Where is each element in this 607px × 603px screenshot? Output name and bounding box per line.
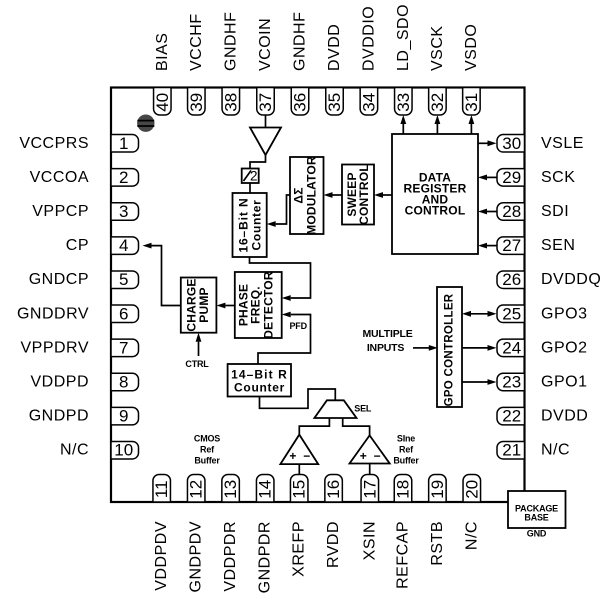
svg-text:Counter: Counter (250, 200, 264, 251)
svg-text:22: 22 (502, 407, 521, 426)
svg-text:26: 26 (502, 270, 521, 289)
svg-text:3: 3 (119, 202, 128, 221)
svg-text:VSLE: VSLE (541, 135, 584, 152)
svg-text:5: 5 (119, 270, 128, 289)
svg-text:DETECTOR: DETECTOR (262, 271, 276, 339)
svg-text:14–Bit R: 14–Bit R (231, 368, 288, 382)
svg-text:GNDCP: GNDCP (29, 271, 89, 288)
svg-text:17: 17 (360, 480, 379, 499)
svg-text:INPUTS: INPUTS (367, 342, 405, 354)
svg-text:23: 23 (502, 373, 521, 392)
svg-text:GPO3: GPO3 (541, 305, 587, 322)
svg-text:6: 6 (119, 304, 128, 323)
svg-text:VCCHF: VCCHF (188, 13, 205, 71)
svg-text:24: 24 (502, 338, 521, 357)
svg-text:BASE: BASE (524, 512, 548, 522)
svg-text:GNDHF: GNDHF (222, 12, 239, 71)
svg-text:CONTROL: CONTROL (357, 164, 371, 225)
svg-text:35: 35 (325, 93, 344, 112)
svg-text:16: 16 (324, 480, 343, 499)
svg-text:SEN: SEN (541, 237, 575, 254)
svg-text:CTRL: CTRL (185, 359, 209, 369)
svg-text:REFCAP: REFCAP (395, 521, 412, 589)
svg-text:34: 34 (359, 93, 378, 112)
svg-text:VCCPRS: VCCPRS (19, 135, 89, 152)
svg-text:4: 4 (119, 236, 128, 255)
svg-text:18: 18 (394, 480, 413, 499)
svg-text:VDDPD: VDDPD (30, 374, 89, 391)
svg-text:VPPDRV: VPPDRV (20, 339, 89, 356)
svg-text:RSTB: RSTB (429, 521, 446, 566)
svg-text:Buffer: Buffer (393, 455, 419, 465)
svg-text:27: 27 (502, 236, 521, 255)
svg-text:PFD: PFD (290, 321, 308, 331)
svg-text:BIAS: BIAS (154, 33, 171, 71)
svg-text:32: 32 (428, 93, 447, 112)
svg-text:−: − (374, 449, 381, 463)
svg-text:20: 20 (462, 480, 481, 499)
svg-text:9: 9 (119, 407, 128, 426)
svg-text:GPO1: GPO1 (541, 374, 587, 391)
svg-text:SEL: SEL (354, 404, 372, 414)
svg-text:CP: CP (66, 237, 89, 254)
svg-text:VPPCP: VPPCP (32, 203, 89, 220)
svg-text:VCCOA: VCCOA (30, 169, 89, 186)
svg-text:ΔΣ: ΔΣ (292, 187, 306, 203)
svg-text:10: 10 (114, 441, 133, 460)
svg-text:39: 39 (187, 93, 206, 112)
svg-text:SCK: SCK (541, 169, 575, 186)
svg-text:VDDPDR: VDDPDR (222, 521, 239, 592)
svg-text:Buffer: Buffer (194, 455, 220, 465)
svg-text:XSIN: XSIN (361, 521, 378, 560)
svg-text:7: 7 (119, 338, 128, 357)
svg-text:36: 36 (291, 93, 310, 112)
svg-text:40: 40 (153, 93, 172, 112)
svg-text:19: 19 (428, 480, 447, 499)
svg-text:1: 1 (119, 134, 128, 153)
svg-text:VCOIN: VCOIN (257, 18, 274, 71)
svg-text:DVDDQ: DVDDQ (541, 271, 601, 288)
svg-text:GPO CONTROLLER: GPO CONTROLLER (444, 293, 456, 406)
svg-text:XREFP: XREFP (291, 521, 308, 577)
svg-text:N/C: N/C (60, 442, 89, 459)
svg-text:FREQ.: FREQ. (249, 286, 263, 324)
svg-text:N/C: N/C (541, 442, 570, 459)
svg-text:Ref: Ref (399, 444, 414, 454)
svg-text:RVDD: RVDD (325, 521, 342, 568)
svg-text:25: 25 (502, 304, 521, 323)
svg-text:N/C: N/C (463, 521, 480, 550)
svg-text:GND: GND (527, 528, 547, 538)
svg-text:28: 28 (502, 202, 521, 221)
svg-text:16–Bit N: 16–Bit N (237, 197, 251, 252)
svg-text:33: 33 (394, 93, 413, 112)
svg-text:DVDD: DVDD (326, 24, 343, 71)
svg-text:LD_SDO: LD_SDO (395, 4, 412, 71)
svg-text:GNDPDV: GNDPDV (188, 521, 205, 592)
svg-text:MULTIPLE: MULTIPLE (362, 328, 412, 340)
svg-text:MODULATOR: MODULATOR (305, 156, 319, 235)
svg-text:SDI: SDI (541, 203, 569, 220)
svg-text:Counter: Counter (234, 381, 285, 395)
svg-text:GPO2: GPO2 (541, 339, 587, 356)
svg-text:15: 15 (290, 480, 309, 499)
svg-text:GNDPDR: GNDPDR (257, 521, 274, 593)
svg-text:38: 38 (221, 93, 240, 112)
svg-text:−: − (303, 449, 310, 463)
svg-text:2: 2 (250, 169, 258, 184)
svg-text:2: 2 (119, 168, 128, 187)
svg-text:SIne: SIne (397, 433, 415, 443)
svg-text:+: + (289, 449, 296, 463)
svg-text:CMOS: CMOS (194, 433, 220, 443)
svg-text:21: 21 (502, 441, 521, 460)
svg-text:+: + (360, 449, 367, 463)
svg-text:11: 11 (152, 480, 171, 498)
svg-text:DVDD: DVDD (541, 408, 588, 425)
svg-text:GNDPD: GNDPD (29, 408, 89, 425)
svg-text:14: 14 (256, 480, 275, 499)
svg-text:31: 31 (462, 93, 481, 112)
svg-text:13: 13 (221, 480, 240, 499)
svg-text:VSDO: VSDO (463, 24, 480, 71)
svg-text:29: 29 (502, 168, 521, 187)
svg-text:CONTROL: CONTROL (405, 204, 466, 218)
svg-text:37: 37 (256, 93, 275, 112)
svg-text:8: 8 (119, 373, 128, 392)
svg-text:Ref: Ref (200, 444, 215, 454)
svg-text:VDDPDV: VDDPDV (153, 521, 170, 591)
svg-text:GNDDRV: GNDDRV (17, 305, 89, 322)
svg-text:PUMP: PUMP (197, 287, 211, 322)
svg-text:12: 12 (187, 480, 206, 499)
svg-text:DVDDIO: DVDDIO (360, 6, 377, 71)
svg-text:30: 30 (502, 134, 521, 153)
svg-text:VSCK: VSCK (429, 25, 446, 71)
svg-text:GNDHF: GNDHF (292, 12, 309, 71)
